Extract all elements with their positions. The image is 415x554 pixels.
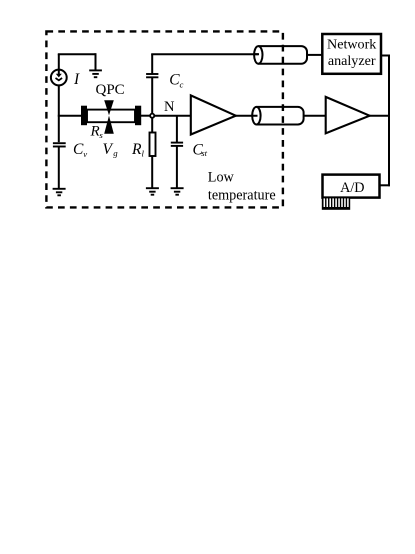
wire coax upper to network analyzer	[307, 54, 323, 56]
coax cable body lower	[256, 107, 303, 125]
wire amp U1 output into coax	[235, 115, 258, 117]
network analyzer box	[322, 34, 381, 74]
wire current source top stub	[58, 54, 60, 74]
wire vertical bus	[388, 55, 390, 187]
node N open circle	[150, 114, 154, 118]
wire down to Cst	[176, 116, 178, 143]
wire node down to Rl	[151, 118, 153, 133]
wire node up to Cc	[151, 78, 153, 114]
svg-text:QPC: QPC	[96, 82, 125, 98]
A/D connector hatched block	[322, 197, 350, 209]
wire Cc up	[151, 54, 153, 74]
svg-text:c: c	[180, 79, 184, 89]
svg-text:R: R	[131, 141, 142, 158]
svg-text:g: g	[113, 148, 118, 158]
svg-text:Low: Low	[208, 170, 235, 186]
A/D box	[323, 175, 380, 198]
wire current source bottom to Cv	[58, 86, 60, 143]
op-amp U1 cold amplifier	[191, 95, 236, 134]
ground G1	[89, 70, 102, 77]
wire down to ground G1	[95, 53, 97, 70]
wire Rl to ground	[151, 156, 153, 188]
svg-text:A/D: A/D	[340, 180, 364, 196]
dashed low-temperature boundary box	[46, 31, 283, 207]
wire left horizontal to QPC	[58, 115, 82, 117]
capacitor Cst	[171, 143, 183, 146]
ground G2	[53, 189, 66, 196]
current source arrow chevron 2	[56, 78, 63, 80]
ground G4	[171, 188, 184, 195]
svg-text:v: v	[83, 149, 87, 159]
wire amp U2 output to bus	[369, 115, 390, 117]
QPC left contact pad	[81, 106, 87, 126]
wire coax to amplifier U2	[304, 115, 327, 117]
wire into coax upper	[255, 53, 259, 55]
current source I1 circle	[51, 70, 67, 86]
ground G3	[146, 188, 159, 195]
svg-text:V: V	[103, 141, 114, 158]
svg-text:R: R	[90, 123, 100, 139]
wire QPC to node N	[141, 115, 150, 117]
svg-text:s: s	[99, 130, 103, 140]
svg-text:analyzer: analyzer	[328, 53, 376, 69]
QPC top gate triangle	[104, 100, 114, 115]
resistor Rl	[150, 133, 156, 157]
wire network analyzer to bus	[381, 55, 390, 57]
wire Cst to ground	[176, 146, 178, 188]
svg-text:N: N	[164, 99, 175, 115]
wire node to amplifier input	[154, 115, 191, 117]
QPC right contact pad	[135, 106, 141, 126]
svg-text:I: I	[73, 71, 80, 88]
svg-text:temperature: temperature	[208, 188, 276, 204]
wire top loop horizontal	[58, 53, 96, 55]
op-amp U2 room temperature amplifier	[326, 97, 370, 133]
wire Cc top horizontal to coax 1	[151, 53, 258, 55]
QPC channel	[87, 110, 135, 123]
coax cable lower left ellipse	[252, 107, 260, 125]
svg-text:Network: Network	[327, 37, 377, 53]
wire Cv to ground	[58, 147, 60, 189]
wire A/D to bus	[380, 184, 391, 186]
capacitor Cc	[146, 74, 158, 77]
coax cable upper left ellipse	[254, 46, 262, 64]
svg-text:st: st	[201, 148, 207, 158]
coax cable body upper	[258, 46, 307, 64]
current source arrow head 1	[56, 74, 62, 78]
capacitor Cv	[53, 143, 66, 146]
QPC bottom gate triangle	[104, 116, 114, 134]
